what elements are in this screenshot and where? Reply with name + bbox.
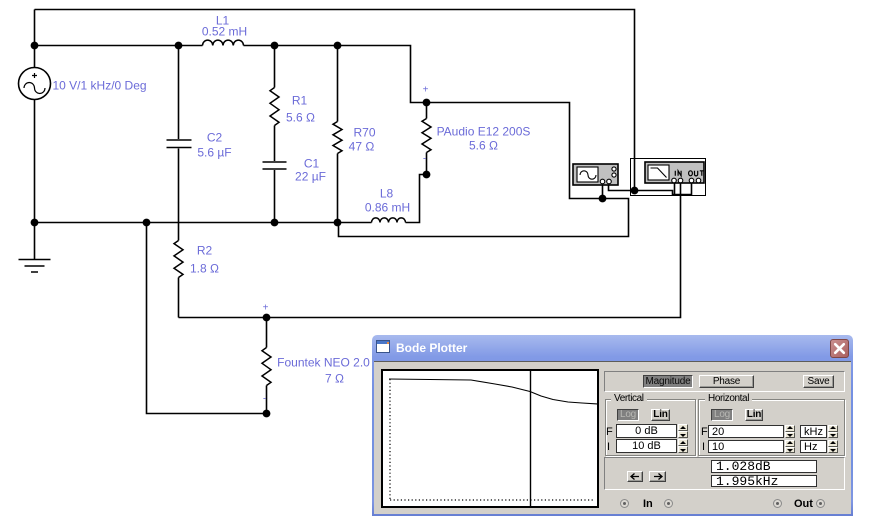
svg-text:5.6 Ω: 5.6 Ω <box>286 111 315 125</box>
svg-text:-: - <box>423 154 426 165</box>
svg-text:+: + <box>423 85 429 96</box>
svg-text:0.86 mH: 0.86 mH <box>365 201 410 215</box>
svg-text:+: + <box>263 303 269 314</box>
svg-text:L8: L8 <box>380 187 394 201</box>
svg-text:0.52 mH: 0.52 mH <box>202 25 247 39</box>
svg-text:5.6 Ω: 5.6 Ω <box>469 139 498 153</box>
svg-text:47 Ω: 47 Ω <box>349 140 375 154</box>
svg-text:5.6 µF: 5.6 µF <box>197 146 231 160</box>
svg-text:R1: R1 <box>292 94 308 108</box>
svg-text:R2: R2 <box>197 244 213 258</box>
svg-text:PAudio E12 200S: PAudio E12 200S <box>437 125 531 139</box>
svg-text:1.8 Ω: 1.8 Ω <box>190 262 219 276</box>
svg-text:C2: C2 <box>207 131 223 145</box>
svg-text:C1: C1 <box>304 157 320 171</box>
svg-text:7 Ω: 7 Ω <box>325 372 344 386</box>
svg-text:10 V/1 kHz/0 Deg: 10 V/1 kHz/0 Deg <box>53 79 147 93</box>
svg-text:-: - <box>263 394 266 405</box>
svg-text:22 µF: 22 µF <box>295 170 326 184</box>
svg-text:Fountek NEO 2.0: Fountek NEO 2.0 <box>277 356 370 370</box>
svg-text:R70: R70 <box>353 126 375 140</box>
